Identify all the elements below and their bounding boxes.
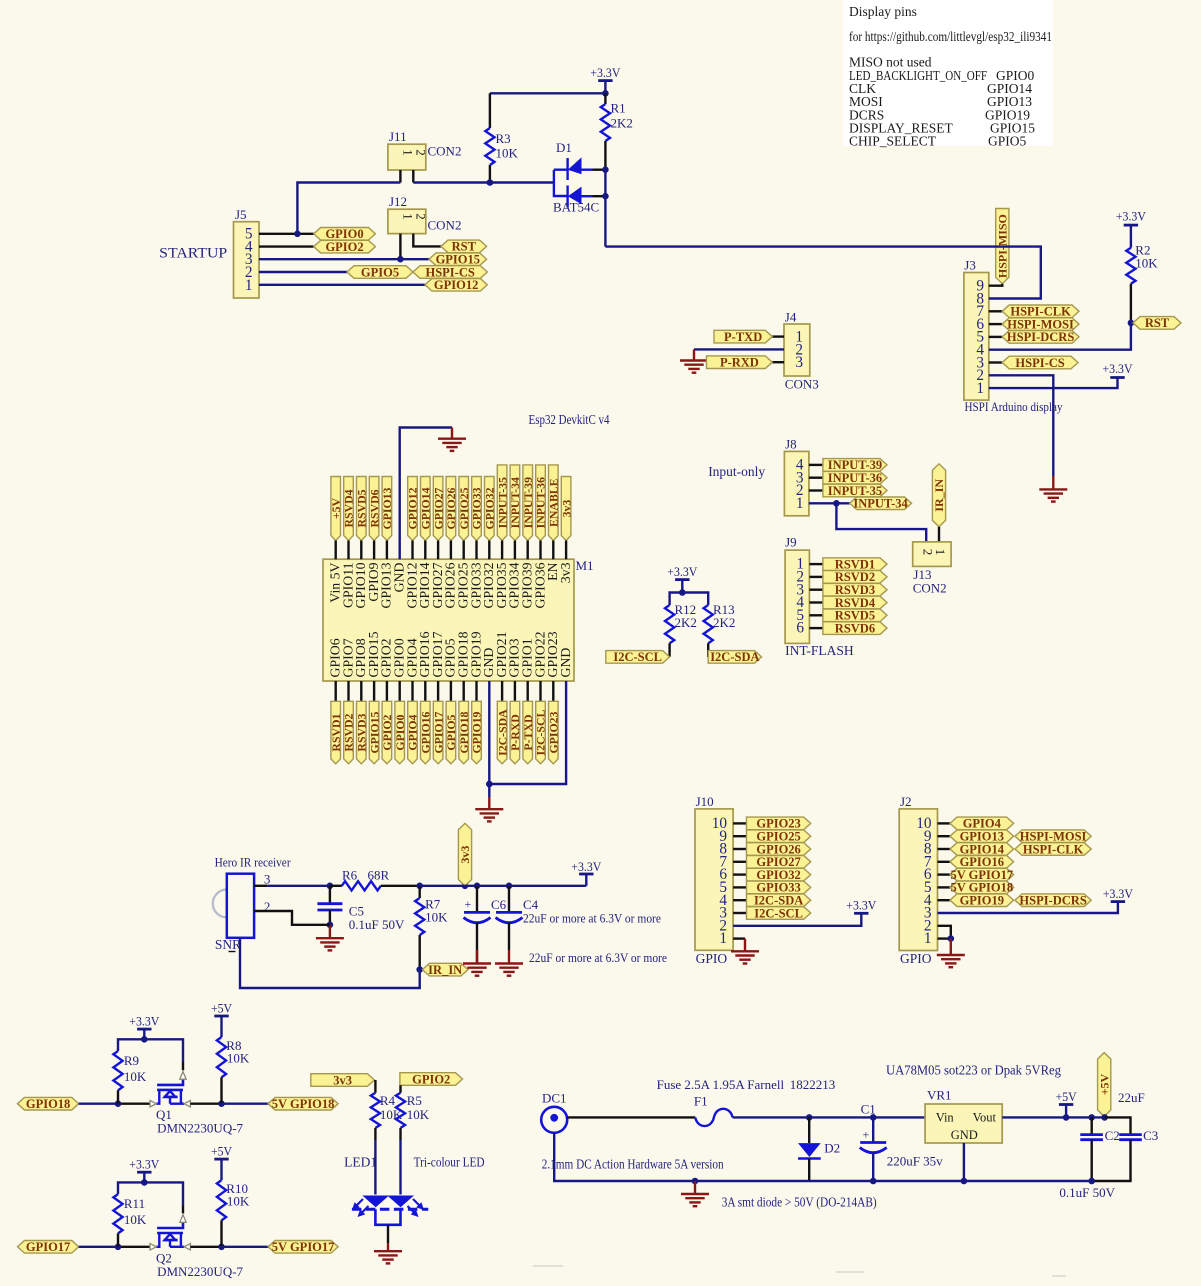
wire J8 pin1 to J13 pin2 bbox=[836, 503, 926, 542]
svg-text:C1: C1 bbox=[861, 1102, 876, 1117]
connector J3 bbox=[964, 273, 989, 401]
J2 pin2 wire bbox=[938, 926, 951, 939]
port INPUT-35 bbox=[823, 484, 887, 497]
svg-text:J5: J5 bbox=[235, 207, 247, 222]
J3 pin 2 wire to ground bbox=[989, 375, 1054, 476]
svg-text:RST: RST bbox=[452, 240, 477, 254]
wire J11 pin1 to GPIO0 net bbox=[297, 183, 400, 234]
svg-text:IR_IN: IR_IN bbox=[428, 963, 462, 977]
svg-text:M1: M1 bbox=[576, 558, 594, 573]
junction R3 bottom bbox=[487, 179, 494, 186]
J4 pin2 wire to ground bbox=[694, 348, 784, 350]
M1 bottom port P-RXD bbox=[514, 681, 516, 701]
svg-text:1: 1 bbox=[796, 495, 804, 512]
connector J12 CON2 bbox=[388, 209, 426, 233]
wire VR1 out rail bbox=[1002, 1116, 1104, 1118]
connector DC1 barrel jack bbox=[541, 1107, 567, 1133]
port I2C-SCL (pullup) bbox=[606, 651, 670, 664]
J11 pin 1 stub bbox=[399, 170, 401, 183]
M1 bottom port RSVD3 bbox=[360, 681, 362, 701]
svg-text:0.1uF 50V: 0.1uF 50V bbox=[1059, 1185, 1115, 1200]
port INPUT-34 bbox=[850, 497, 912, 510]
port HSPI-CLK bbox=[1002, 305, 1079, 318]
M1 top port RSVD4 bbox=[344, 477, 354, 541]
M1 bottom port GPIO23 bbox=[552, 681, 554, 701]
svg-text:+5V: +5V bbox=[1056, 1090, 1077, 1104]
svg-text:+3.3V: +3.3V bbox=[571, 860, 601, 874]
svg-text:P-RXD: P-RXD bbox=[720, 356, 759, 370]
svg-text:1822213: 1822213 bbox=[790, 1077, 836, 1092]
connector J11 CON2 bbox=[388, 144, 426, 170]
port 5V GPIO18 bbox=[268, 1097, 338, 1110]
junction I2C pullup top bbox=[679, 589, 686, 596]
svg-text:Fuse 2.5A 1.95A Farnell: Fuse 2.5A 1.95A Farnell bbox=[657, 1077, 785, 1092]
svg-text:P-TXD: P-TXD bbox=[724, 330, 762, 344]
svg-text:F1: F1 bbox=[694, 1094, 708, 1109]
wire +3.3V to Q1 gate bbox=[144, 1039, 183, 1062]
M1 bottom port GPIO15 bbox=[373, 681, 375, 701]
junction +3.3V Q1 bbox=[141, 1036, 148, 1043]
wire to 3v3 flag bbox=[462, 883, 469, 890]
M1 top port GPIO14 bbox=[421, 477, 431, 541]
svg-text:GND: GND bbox=[951, 1128, 978, 1142]
white note panel bbox=[843, 0, 1053, 146]
junction C1 top bbox=[870, 1114, 877, 1121]
port 5V GPIO17 (J2) bbox=[950, 868, 1014, 881]
junction GPIO0/J11 bbox=[294, 231, 301, 238]
svg-text:+3.3V: +3.3V bbox=[1116, 209, 1147, 224]
junction INPUT-34 / J13 bbox=[833, 500, 840, 507]
M1 top port GPIO27 bbox=[433, 477, 443, 541]
J3 pin 3 stub bbox=[989, 361, 1002, 363]
port GPIO18 bbox=[18, 1097, 79, 1110]
port 5V GPIO18 (J2) bbox=[950, 881, 1014, 894]
port GPIO5 bbox=[347, 266, 413, 279]
svg-text:D1: D1 bbox=[556, 140, 572, 155]
J8 pin3 stub bbox=[809, 477, 823, 479]
port GPIO23 (J10) bbox=[747, 817, 811, 830]
J3 pin 4 wire to R2/RST bbox=[989, 323, 1131, 350]
wire +3.3V to R3 top bbox=[490, 92, 606, 94]
M1 bottom port GPIO2 bbox=[386, 681, 388, 701]
M1 top port INPUT-39 bbox=[523, 465, 533, 541]
junction C6 bbox=[474, 883, 481, 890]
J9 pin6 stub bbox=[809, 627, 823, 629]
svg-text:HSPI-DCRS: HSPI-DCRS bbox=[1019, 894, 1086, 908]
port RSVD2 bbox=[823, 571, 887, 584]
port 3v3 (LED) bbox=[311, 1074, 375, 1087]
junction +3.3V Q2 bbox=[141, 1179, 148, 1186]
wire Q2 drain to R10 bbox=[190, 1246, 221, 1248]
capacitor C4 22uF bbox=[508, 886, 510, 913]
fuse F1 bbox=[695, 1109, 732, 1126]
J2 pin1 wire bbox=[938, 937, 951, 939]
svg-text:1: 1 bbox=[245, 277, 253, 294]
svg-text:22uF: 22uF bbox=[1118, 1090, 1145, 1105]
port GPIO2 (LED) bbox=[400, 1073, 463, 1086]
J4 pin1 stub bbox=[772, 335, 784, 337]
svg-text:GPIO5: GPIO5 bbox=[988, 134, 1027, 149]
J9 pin2 stub bbox=[809, 576, 823, 578]
wire VR1 GND pin bbox=[963, 1143, 965, 1181]
J2 pin5 stub bbox=[938, 886, 951, 888]
capacitor C3 bbox=[1105, 1117, 1131, 1134]
M1 bottom port GPIO19 bbox=[475, 681, 477, 701]
bottom power rail bbox=[554, 1133, 1091, 1181]
M1 top port 3v3 bbox=[561, 477, 571, 541]
M1 top port GPIO32 bbox=[485, 477, 495, 541]
J5 pin 3 wire bbox=[259, 258, 429, 260]
svg-text:1: 1 bbox=[719, 930, 727, 947]
port INPUT-36 bbox=[823, 471, 887, 484]
junction +5V bbox=[1063, 1114, 1070, 1121]
junction C5 top bbox=[327, 883, 334, 890]
svg-text:I2C-SCL: I2C-SCL bbox=[754, 906, 803, 920]
J10 pin5 stub bbox=[733, 886, 746, 888]
wire main IR rail bbox=[420, 885, 587, 887]
M1 top port RSVD6 bbox=[369, 477, 379, 541]
port GPIO15 bbox=[429, 253, 487, 266]
capacitor C6 22uF bbox=[476, 886, 478, 913]
svg-text:HSPI-CLK: HSPI-CLK bbox=[1023, 842, 1084, 856]
wire SNR loop bbox=[240, 938, 420, 988]
junction R10 bottom bbox=[218, 1244, 225, 1251]
J13 pin1 stub bbox=[938, 527, 940, 542]
port RSVD1 bbox=[823, 558, 887, 571]
port HSPI-MOSI (J2) bbox=[1015, 830, 1091, 843]
LED LED1 dual diode bbox=[362, 1196, 389, 1208]
J8 pin4 stub bbox=[809, 464, 823, 466]
svg-text:R3: R3 bbox=[496, 131, 511, 146]
power +5V (R10) bbox=[214, 1158, 228, 1161]
svg-text:R11: R11 bbox=[124, 1196, 145, 1211]
svg-text:CON3: CON3 bbox=[785, 377, 819, 392]
svg-text:Esp32 DevkitC v4: Esp32 DevkitC v4 bbox=[529, 412, 610, 427]
ground (DC input) bbox=[681, 1194, 709, 1206]
faint bottom artifacts bbox=[533, 1266, 1066, 1276]
wire fuse to VR1 bbox=[733, 1116, 926, 1118]
svg-text:C2: C2 bbox=[1105, 1128, 1120, 1143]
port RSVD4 bbox=[823, 596, 887, 609]
svg-text:D2: D2 bbox=[824, 1141, 840, 1156]
power +3.3V (J2) bbox=[1111, 900, 1125, 903]
J2 pin8 stub bbox=[938, 848, 951, 850]
M1 bottom port P-TXD bbox=[527, 681, 529, 701]
long wire D1 node to J3 pin 8 bbox=[605, 247, 1040, 299]
wire GPIO17 row bbox=[79, 1246, 118, 1248]
svg-text:+: + bbox=[863, 1128, 870, 1142]
svg-text:3v3: 3v3 bbox=[558, 562, 573, 583]
svg-text:1: 1 bbox=[401, 213, 416, 220]
svg-text:+5V: +5V bbox=[1097, 1073, 1111, 1095]
svg-text:+3.3V: +3.3V bbox=[129, 1158, 159, 1172]
svg-text:68R: 68R bbox=[368, 868, 390, 883]
junction J2 pin1 bbox=[948, 935, 955, 942]
svg-text:HSPI Arduino display: HSPI Arduino display bbox=[965, 399, 1063, 414]
M1 top port GPIO12 bbox=[408, 477, 418, 541]
J5 pin 1 wire bbox=[259, 284, 425, 286]
J3 pin 5 stub bbox=[989, 336, 1002, 338]
svg-text:LED1: LED1 bbox=[344, 1155, 377, 1170]
svg-text:+: + bbox=[465, 897, 472, 911]
svg-text:+3.3V: +3.3V bbox=[1103, 887, 1133, 901]
port GPIO32 (J10) bbox=[747, 868, 811, 881]
svg-text:5V GPIO18: 5V GPIO18 bbox=[272, 1097, 335, 1111]
svg-text:J3: J3 bbox=[964, 258, 976, 273]
svg-text:IR_IN: IR_IN bbox=[932, 479, 946, 512]
wire GPIO18 row bbox=[79, 1102, 118, 1104]
junction R11 bottom bbox=[115, 1244, 122, 1251]
M1 bottom port GPIO4 bbox=[411, 681, 413, 701]
J2 pin3 wire to +3.3V bbox=[938, 902, 1118, 913]
svg-text:3v3: 3v3 bbox=[559, 500, 573, 518]
svg-text:2K2: 2K2 bbox=[675, 615, 697, 630]
J9 pin4 stub bbox=[809, 601, 823, 603]
M1 top port GPIO25 bbox=[459, 477, 469, 541]
svg-text:1: 1 bbox=[401, 149, 416, 156]
svg-text:CON2: CON2 bbox=[428, 218, 462, 233]
LED emission arrows bbox=[357, 1199, 419, 1212]
svg-text:C3: C3 bbox=[1143, 1128, 1158, 1143]
port RST (J12) bbox=[441, 240, 487, 253]
connector J9 bbox=[785, 550, 809, 643]
M1 bottom port GPIO16 bbox=[424, 681, 426, 701]
wire to 5V GPIO18 port bbox=[222, 1102, 269, 1104]
connector J13 CON2 bbox=[913, 542, 951, 567]
svg-text:CHIP_SELECT: CHIP_SELECT bbox=[849, 134, 937, 149]
svg-text:DMN2230UQ-7: DMN2230UQ-7 bbox=[157, 1121, 243, 1136]
M1 bottom port GPIO17 bbox=[437, 681, 439, 701]
resistor R4 10K bbox=[374, 1080, 376, 1093]
J11 pin 2 stub bbox=[412, 170, 414, 183]
vertical port HSPI-MISO bbox=[996, 209, 1009, 284]
J4 pin3 stub bbox=[772, 361, 784, 363]
junction C2 bottom bbox=[1088, 1178, 1095, 1185]
svg-text:+5V: +5V bbox=[211, 1145, 232, 1159]
svg-text:220uF 35v: 220uF 35v bbox=[887, 1154, 943, 1169]
port RSVD6 bbox=[823, 622, 887, 635]
svg-text:I2C-SDA: I2C-SDA bbox=[710, 650, 759, 664]
power +5V (VR1 out) bbox=[1059, 1103, 1073, 1106]
resistor R12 2K2 bbox=[670, 593, 683, 606]
J3 pin 7 stub bbox=[989, 310, 1002, 312]
wire M1 bottom GND pin to ground bbox=[488, 681, 490, 784]
svg-text:10K: 10K bbox=[425, 910, 448, 925]
wire +3.3V to Q2 gate bbox=[144, 1182, 183, 1205]
port HSPI-CS (J3) bbox=[1002, 356, 1078, 369]
svg-text:BAT54C: BAT54C bbox=[553, 200, 599, 215]
svg-text:STARTUP: STARTUP bbox=[159, 246, 227, 262]
svg-text:2K2: 2K2 bbox=[611, 116, 633, 131]
resistor R6 68R bbox=[330, 885, 342, 887]
svg-text:RST: RST bbox=[1145, 316, 1170, 330]
svg-text:C6: C6 bbox=[491, 897, 507, 912]
J2 pin4 stub bbox=[938, 899, 951, 901]
port I2C-SDA (pullup) bbox=[708, 651, 761, 664]
svg-text:CON2: CON2 bbox=[428, 144, 462, 159]
resistor R3 10K bbox=[489, 93, 491, 128]
svg-text:VR1: VR1 bbox=[927, 1088, 952, 1103]
J2 pin6 stub bbox=[938, 873, 951, 875]
svg-text:J9: J9 bbox=[785, 535, 797, 550]
svg-text:DMN2230UQ-7: DMN2230UQ-7 bbox=[157, 1264, 243, 1279]
svg-text:J8: J8 bbox=[785, 437, 797, 452]
svg-text:22uF or more at 6.3V or more: 22uF or more at 6.3V or more bbox=[529, 950, 667, 965]
ground (C4) bbox=[495, 964, 523, 976]
port HSPI-MOSI bbox=[1002, 318, 1079, 331]
resistor R11 10K bbox=[118, 1182, 144, 1194]
svg-text:22uF or more at 6.3V or more: 22uF or more at 6.3V or more bbox=[523, 911, 661, 926]
transistor Q2 DMN2230UQ-7 bbox=[157, 1222, 183, 1228]
svg-text:Display pins: Display pins bbox=[849, 4, 917, 19]
port RST (right) bbox=[1133, 317, 1181, 330]
J2 pin7 stub bbox=[938, 861, 951, 863]
svg-text:3A smt diode > 50V (DO-214AB): 3A smt diode > 50V (DO-214AB) bbox=[722, 1195, 877, 1210]
J3 pin 9 wire bbox=[989, 284, 1003, 286]
junction R8 bottom bbox=[218, 1100, 225, 1107]
svg-text:J12: J12 bbox=[389, 194, 407, 209]
junction R7 top bbox=[416, 883, 423, 890]
junction C1 bottom bbox=[870, 1178, 877, 1185]
J10 pin1 wire to ground bbox=[733, 937, 745, 939]
power +5V (R8) bbox=[214, 1015, 228, 1018]
wire Q1 drain to R8 bbox=[190, 1102, 221, 1104]
J5 pin 2 wire bbox=[259, 271, 347, 273]
svg-text:J2: J2 bbox=[900, 794, 912, 809]
ground (C5) bbox=[316, 938, 344, 950]
M1 bottom port GPIO5 bbox=[450, 681, 452, 701]
resistor R5 10K bbox=[399, 1085, 401, 1092]
J10 pin10 stub bbox=[733, 822, 746, 824]
svg-text:GPIO19: GPIO19 bbox=[960, 894, 1004, 908]
regulator VR1 UA78M05 bbox=[925, 1104, 1002, 1143]
port INPUT-39 bbox=[823, 459, 887, 472]
svg-text:+3.3V: +3.3V bbox=[590, 66, 620, 80]
J10 pin2 wire to +3.3V bbox=[733, 913, 861, 926]
junction C2 top bbox=[1088, 1114, 1095, 1121]
M1 top port GPIO13 bbox=[382, 477, 392, 541]
J10 pin8 stub bbox=[733, 848, 746, 850]
svg-text:UA78M05 sot223 or Dpak 5VReg: UA78M05 sot223 or Dpak 5VReg bbox=[886, 1063, 1061, 1078]
svg-text:+3.3V: +3.3V bbox=[667, 565, 697, 579]
wire D1 node down to HSPI net bbox=[604, 170, 606, 247]
wire M1 bottom GND2 pin bbox=[489, 681, 566, 784]
J3 pin 1 wire to +3.3V bbox=[989, 378, 1118, 389]
svg-text:GPIO5: GPIO5 bbox=[361, 265, 399, 279]
junction IR_IN bbox=[416, 966, 423, 973]
svg-text:GPIO19: GPIO19 bbox=[470, 711, 484, 753]
J9 pin1 stub bbox=[809, 563, 823, 565]
wire DC1 to fuse bbox=[567, 1116, 695, 1118]
svg-text:DC1: DC1 bbox=[542, 1091, 567, 1106]
port GPIO27 (J10) bbox=[747, 856, 811, 869]
port GPIO12 bbox=[425, 279, 487, 292]
resistor R7 10K bbox=[419, 886, 421, 898]
svg-text:R1: R1 bbox=[611, 101, 626, 116]
svg-text:R6: R6 bbox=[342, 868, 358, 883]
diode D1 BAT54C bbox=[554, 157, 593, 207]
svg-text:Hero IR receiver: Hero IR receiver bbox=[215, 855, 292, 870]
resistor R9 10K bbox=[118, 1039, 144, 1051]
svg-text:10K: 10K bbox=[1135, 256, 1158, 271]
port GPIO26 (J10) bbox=[747, 843, 811, 856]
M1 top port INPUT-36 bbox=[536, 465, 546, 541]
svg-text:INPUT-34: INPUT-34 bbox=[853, 497, 908, 511]
M1 bottom pin names bbox=[328, 631, 573, 677]
transistor Q1 DMN2230UQ-7 bbox=[157, 1079, 183, 1085]
svg-text:R9: R9 bbox=[124, 1053, 139, 1068]
M1 top port INPUT-34 bbox=[510, 465, 520, 541]
port 5V GPIO17 bbox=[268, 1241, 338, 1254]
svg-text:CON2: CON2 bbox=[913, 581, 947, 596]
svg-text:J10: J10 bbox=[696, 794, 714, 809]
IR pin3 wire bbox=[254, 885, 267, 887]
port GPIO25 (J10) bbox=[747, 830, 811, 843]
ground (LED1) bbox=[374, 1251, 402, 1263]
J2 pin10 stub bbox=[938, 822, 951, 824]
svg-text:1: 1 bbox=[933, 549, 948, 556]
svg-text:R5: R5 bbox=[407, 1093, 422, 1108]
svg-text:10K: 10K bbox=[407, 1107, 430, 1122]
M1 top port INPUT-35 bbox=[497, 465, 507, 541]
port GPIO2 bbox=[314, 240, 376, 253]
svg-text:HSPI-CS: HSPI-CS bbox=[1015, 356, 1064, 370]
resistor R2 10K bbox=[1124, 224, 1138, 227]
J2 pin9 stub bbox=[938, 835, 951, 837]
J8 pin2 stub bbox=[809, 489, 823, 491]
port GPIO19 (J2) bbox=[950, 894, 1014, 907]
J3 pin 6 stub bbox=[989, 323, 1002, 325]
resistor R10 10K bbox=[217, 1180, 226, 1220]
svg-text:+3.3V: +3.3V bbox=[129, 1015, 159, 1029]
capacitor C2 bbox=[1090, 1117, 1092, 1134]
junction D1 top bbox=[602, 166, 609, 173]
svg-text:2: 2 bbox=[414, 149, 429, 156]
svg-text:for https://github.com/littlev: for https://github.com/littlevgl/esp32_i… bbox=[849, 29, 1052, 44]
svg-text:GPIO23: GPIO23 bbox=[547, 711, 561, 753]
svg-text:10K: 10K bbox=[227, 1194, 250, 1209]
J5 pin 4 wire bbox=[259, 245, 314, 247]
M1 bottom port RSVD1 bbox=[335, 681, 337, 701]
svg-text:10K: 10K bbox=[227, 1051, 250, 1066]
connector J4 CON3 bbox=[784, 324, 810, 376]
svg-text:3v3: 3v3 bbox=[458, 846, 472, 864]
J10 pin3 stub bbox=[733, 912, 746, 914]
svg-text:HSPI-DCRS: HSPI-DCRS bbox=[1007, 330, 1074, 344]
junction R2/RST bbox=[1128, 320, 1135, 327]
svg-text:Input-only: Input-only bbox=[708, 464, 765, 479]
junction under +3.3V bbox=[602, 90, 609, 97]
power +3.3V (top, above R1) bbox=[598, 79, 612, 82]
svg-text:RSVD6: RSVD6 bbox=[835, 621, 875, 635]
junction R9 bottom bbox=[115, 1100, 122, 1107]
svg-text:GPIO13: GPIO13 bbox=[380, 487, 394, 529]
wire M1 top GND pin to ground bbox=[400, 428, 452, 560]
svg-text:3v3: 3v3 bbox=[333, 1073, 352, 1087]
M1 top port ENABLE bbox=[549, 465, 559, 541]
junction +5V flag bbox=[1101, 1114, 1108, 1121]
port P-RXD bbox=[707, 356, 773, 369]
port GPIO17 bbox=[18, 1241, 79, 1254]
M1 bottom port I2C-SCL bbox=[539, 681, 541, 701]
junction D1 bottom bbox=[602, 193, 609, 200]
M1 top port +5V bbox=[331, 477, 341, 541]
wire J12 pin1 to GPIO15 net bbox=[399, 234, 401, 260]
svg-text:Tri-colour LED: Tri-colour LED bbox=[414, 1155, 485, 1170]
wire J12 pin2 to RST port bbox=[413, 234, 441, 247]
ground (C6) bbox=[463, 964, 491, 976]
port GPIO4 (J2) bbox=[950, 817, 1014, 830]
